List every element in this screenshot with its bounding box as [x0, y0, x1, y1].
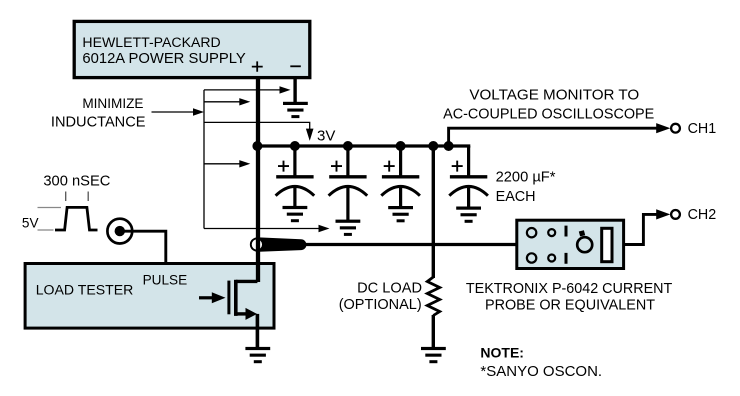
power supply U1 (Hewlett-Packard 6012A): [74, 21, 310, 77]
BNC connector J1: [107, 219, 132, 244]
svg-text:NOTE:: NOTE:: [480, 344, 524, 360]
svg-text:VOLTAGE MONITOR TO: VOLTAGE MONITOR TO: [469, 87, 639, 104]
svg-text:CH1: CH1: [688, 121, 717, 137]
pulse waveform trapezoid: [55, 207, 98, 230]
svg-text:INDUCTANCE: INDUCTANCE: [51, 115, 146, 131]
wire: bus down to DC load resistor: [432, 146, 435, 278]
ground (DC load): [421, 347, 446, 363]
bracket arrow to minus wire: [204, 86, 291, 93]
transistor Q1 drain lead: [236, 280, 258, 283]
connector CH2: [671, 207, 716, 223]
node: C3 junction on bus: [396, 141, 406, 151]
ground (C1): [283, 206, 308, 222]
pulse waveform 5V guide lines: [38, 208, 62, 231]
node: C1 junction on bus: [290, 141, 300, 151]
svg-text:*SANYO OSCON.: *SANYO OSCON.: [480, 363, 602, 380]
current probe clamp body: [256, 237, 306, 252]
svg-text:EACH: EACH: [496, 189, 536, 205]
svg-text:TEKTRONIX P-6042 CURRENT: TEKTRONIX P-6042 CURRENT: [466, 281, 673, 297]
bracket arrow to load wire (bottom): [204, 225, 330, 232]
capacitor C2: [329, 146, 368, 220]
3V callout line and down arrow: [204, 122, 314, 140]
svg-text:(OPTIONAL): (OPTIONAL): [339, 297, 422, 313]
svg-text:CH2: CH2: [688, 207, 717, 223]
svg-text:DC LOAD: DC LOAD: [357, 281, 422, 297]
connector CH1: [671, 121, 716, 137]
transistor Q1 gate bar: [227, 281, 230, 315]
label MINIMIZE INDUCTANCE: [51, 96, 146, 131]
probe cable wire to amplifier box: [305, 243, 517, 246]
label DC LOAD (OPTIONAL): [339, 281, 422, 313]
wire: probe box to CH2: [624, 209, 671, 244]
capacitor C1: [276, 146, 315, 207]
wire: source down to ground: [256, 314, 260, 348]
svg-text:HEWLETT-PACKARD: HEWLETT-PACKARD: [82, 34, 220, 50]
wire: resistor to ground: [432, 315, 435, 348]
minus terminal label: [290, 65, 301, 67]
value label 2200 uF* EACH: [496, 169, 556, 205]
bracket (minimize inductance callout) vertical line: [203, 90, 205, 229]
label TEKTRONIX P-6042 CURRENT PROBE OR EQUIVALENT: [466, 281, 673, 314]
pulse width tick marks: [66, 192, 89, 202]
wire: minus terminal to ground: [293, 77, 296, 103]
svg-text:PROBE OR EQUIVALENT: PROBE OR EQUIVALENT: [485, 298, 655, 314]
svg-text:MINIMIZE: MINIMIZE: [82, 96, 143, 111]
svg-text:PULSE: PULSE: [143, 272, 188, 287]
svg-text:LOAD TESTER: LOAD TESTER: [36, 281, 134, 297]
transistor Q1 source lead with arrowhead: [236, 308, 257, 320]
transistor Q1 channel bar: [234, 280, 238, 316]
ground (C4): [456, 207, 481, 223]
bracket arrow to plus wire (upper): [204, 98, 250, 105]
node: supply plus junction on bus: [252, 141, 262, 151]
ground (C3): [388, 206, 413, 222]
capacitor C4: [449, 146, 488, 207]
svg-text:300 nSEC: 300 nSEC: [43, 174, 110, 190]
bus wire (main positive rail): [257, 144, 470, 147]
transistor Q1 (MOSFET) gate arrow: [199, 292, 226, 303]
node: DC load junction on bus: [428, 141, 438, 151]
svg-text:AC-COUPLED OSCILLOSCOPE: AC-COUPLED OSCILLOSCOPE: [443, 107, 654, 123]
label VOLTAGE MONITOR TO AC-COUPLED OSCILLOSCOPE: [443, 87, 654, 123]
node: C2 junction on bus: [343, 141, 353, 151]
svg-text:3V: 3V: [317, 127, 335, 144]
voltage monitor wire to CH1: [449, 123, 671, 146]
ground (supply minus): [283, 102, 308, 118]
plus terminal label: [252, 61, 263, 71]
wire: BNC to load tester: [121, 231, 166, 262]
current probe clamp aperture circle: [251, 238, 263, 250]
svg-text:5V: 5V: [22, 215, 39, 230]
capacitor C3: [381, 146, 420, 207]
ground (load tester source): [245, 347, 270, 363]
current probe amplifier box (Tektronix P-6042): [517, 220, 624, 268]
note label: [480, 344, 602, 380]
load tester box: [25, 264, 274, 329]
svg-text:2200 µF*: 2200 µF*: [496, 169, 556, 185]
ground (C2): [336, 220, 361, 236]
pointer arrow from label to bracket: [152, 108, 205, 115]
node: voltage monitor junction on bus: [444, 141, 454, 151]
svg-text:6012A POWER SUPPLY: 6012A POWER SUPPLY: [82, 51, 246, 67]
resistor R1 (DC load): [427, 277, 439, 316]
wire: supply plus down through probe to MOSFET drain: [256, 77, 260, 282]
bracket arrow to plus wire (lower): [204, 160, 250, 167]
